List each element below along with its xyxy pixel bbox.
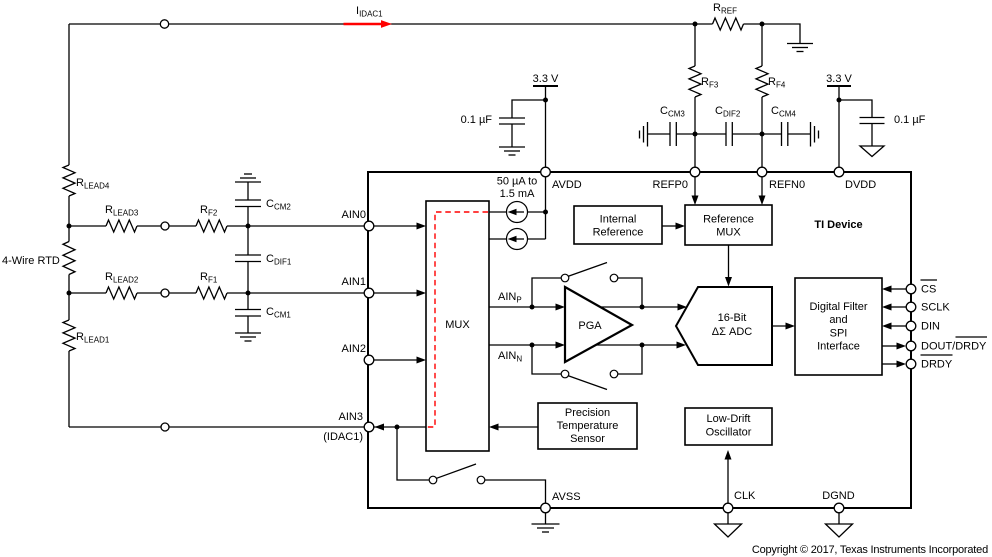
node: junction dot DVDD bypass tap [837,98,842,103]
via circle AIN0 row [161,222,169,230]
block Precision Temperature Sensor [538,403,637,449]
wire: CDIF1 to AIN1 node [247,262,249,294]
wire: AIN3/IDAC1 return row [69,426,369,428]
node: junction dot REFN0 cap row [760,132,765,137]
svg-text:Internal: Internal [600,214,637,226]
pin REFN0 [757,167,767,177]
wire: CCM1 to ground [247,316,249,333]
wire+arrow AIN1 into MUX [369,290,426,297]
wire: ground to CCM2 [247,182,249,200]
wire: AVDD tap to bypass cap [512,100,546,118]
label Low-Drift Oscillator [706,413,752,439]
svg-text:Sensor: Sensor [570,433,605,445]
pin AIN1 [364,288,374,298]
node: junction dot upper output [640,305,645,310]
wire+arrow DOUT/DRDY out of Digital Filter [882,343,906,350]
svg-text:SPI: SPI [830,328,848,340]
wire+arrow PGA lower output to ADC [596,342,686,349]
svg-text:Temperature: Temperature [557,420,619,432]
wire: AIN1 row left segment [69,292,106,294]
svg-text:Digital Filter: Digital Filter [809,301,867,313]
label 16-Bit ADC [712,312,752,338]
wire: RLEAD4 to AIN0 node [68,196,70,242]
label Reference MUX [703,214,754,239]
svg-text:0.1 µF: 0.1 µF [894,114,926,126]
node: junction dot left AIN0 [67,224,72,229]
resistor RF1 [196,287,227,299]
wire+arrow CLK to Oscillator [725,450,732,508]
svg-text:DVDD: DVDD [845,179,876,191]
wire: AIN3 tap down to AVSS switch [397,427,429,480]
ground triangle below DGND [826,524,853,537]
wire+arrow MUX out to AIN3 pin [374,424,426,431]
label AIN3 (IDAC1) [323,411,363,443]
label Precision Temperature Sensor [557,407,619,445]
resistor RLEAD3 [106,220,137,232]
svg-text:MUX: MUX [445,319,470,331]
capacitor CDIF2 [726,122,732,146]
switch AVSS internal [429,464,485,484]
svg-text:DGND: DGND [822,490,854,502]
wire: AVSS pin to ground [545,513,547,524]
svg-text:ΔΣ ADC: ΔΣ ADC [712,326,752,338]
svg-text:Interface: Interface [817,341,860,353]
wire: AIN1 row middle segment [137,292,196,294]
ground below AVDD cap [499,147,525,155]
switch upper bypass [561,263,618,282]
wire: MUX to current source 1 [489,211,507,213]
node: junction dot lower output [640,343,645,348]
wire+arrow Reference MUX to ADC [725,245,732,287]
svg-text:AIN1: AIN1 [342,276,366,288]
wire: RLEAD1 down to AIN3 row [68,351,70,427]
switch lower bypass [561,370,618,389]
supply 3.3V DVDD [827,86,851,172]
wire+arrow AINN MUX to PGA [489,342,565,349]
svg-text:50 µA to: 50 µA to [497,176,538,188]
block Internal Reference [574,206,662,244]
svg-text:MUX: MUX [716,227,741,239]
svg-text:AIN0: AIN0 [342,209,366,221]
node: junction dot AINN bypass [530,343,535,348]
label DRDY with overline [921,355,953,371]
pin DGND [834,503,844,513]
wire: AIN1 node to CCM1 [247,293,249,310]
via circle AIN3 row [161,423,169,431]
wire: top IDAC1 loop from left column to RREF [69,23,713,25]
wire+arrow REFN0 into Reference MUX [759,172,766,205]
wire: AIN0 row right segment to pin [227,225,369,227]
svg-text:TI Device: TI Device [814,219,862,231]
wire+arrow AIN0 into MUX [369,223,426,230]
op-amp PGA [565,287,632,362]
ground at RREF right [787,44,813,52]
ground above CCM2 [235,174,261,182]
svg-text:AIN3: AIN3 [339,411,363,423]
svg-text:REFN0: REFN0 [769,179,805,191]
current source IDAC1 [507,202,528,223]
ground below AVSS [532,524,560,532]
wire: DGND pin to chassis ground [838,513,840,524]
wire: RF4 bottom to REFN0 pin [761,97,763,172]
wire: CCM2 to AIN0 node [247,207,249,227]
node: junction dot CCM1/AIN1 [246,291,251,296]
via circle AIN1 row [161,289,169,297]
pin DIN [906,321,916,331]
ground sideways right of CCM4 [811,122,819,147]
wire: left column vertical from top wire to RLEAD4 [68,24,70,165]
supply 3.3V AVDD [533,86,558,172]
svg-text:Reference: Reference [593,227,644,239]
wire+arrow Internal Reference to Reference MUX [662,223,685,230]
capacitor CCM3 [670,122,676,146]
wire: switch to AVSS pin [485,480,546,508]
resistor RREF [713,18,744,30]
svg-text:DRDY: DRDY [921,359,953,371]
capacitor CCM4 [782,122,788,146]
wire+arrow DIN into Digital Filter [882,323,906,330]
wire: current source 1 to AVDD rail [528,211,546,213]
node: junction dot CCM2/AIN0 [246,224,251,229]
node: junction dot AVDD bypass tap [543,98,548,103]
svg-text:3.3 V: 3.3 V [826,73,852,85]
label 50uA to 1.5mA [497,176,538,201]
wire: RREF right node down to RF4 [761,24,763,66]
capacitor CCM2 [235,200,261,207]
resistor RF4 [756,66,768,97]
svg-text:SCLK: SCLK [921,302,950,314]
node: junction dot RREF left [693,22,698,27]
resistor RF3 [689,66,701,97]
capacitor CDIF1 [235,255,261,262]
resistor RLEAD2 [106,287,137,299]
wire: CCM4 to sideways ground [788,133,811,135]
wire+arrow DRDY out of Digital Filter [882,361,906,368]
wire: AVDD cap to ground [511,124,513,147]
red dashed IDAC1 route through MUX [427,212,489,427]
svg-text:4-Wire RTD: 4-Wire RTD [2,255,60,267]
svg-text:(IDAC1): (IDAC1) [323,431,363,443]
wire+arrow Temperature Sensor to MUX [489,424,538,431]
resistor RLEAD4 [63,165,75,196]
svg-text:Copyright © 2017, Texas Instru: Copyright © 2017, Texas Instruments Inco… [752,544,988,556]
label Digital Filter and SPI Interface [809,301,867,353]
wire: DVDD tap to bypass cap [839,100,872,118]
pin AVDD [541,167,551,177]
resistor RF2 [196,220,227,232]
svg-text:3.3 V: 3.3 V [533,73,559,85]
node: junction dot RREF right [760,22,765,27]
pin DVDD [834,167,844,177]
wire: CLK pin to chassis ground [727,513,729,524]
MUX block [426,201,489,451]
node: junction dot AINP bypass [530,305,535,310]
wire: AIN0 node to CDIF1 [247,226,249,255]
ground sideways left of CCM3 [640,122,648,147]
svg-text:Low-Drift: Low-Drift [706,413,750,425]
wire+arrow CS into Digital Filter [882,286,906,293]
label DOUT/DRDY with overline [921,337,987,353]
resistor RTD element [63,242,75,275]
wire+arrow AIN2 into MUX [369,357,426,364]
wire: upper PGA bypass path [532,278,642,307]
pin REFP0 [690,167,700,177]
wire+arrow SCLK into Digital Filter [882,304,906,311]
svg-text:DOUT/DRDY: DOUT/DRDY [921,341,987,353]
red current arrow IDAC1 [344,20,393,28]
wire+arrow PGA upper output to ADC [600,304,687,311]
current source IDAC2 [507,229,528,250]
svg-text:DIN: DIN [921,321,940,333]
wire: RTD to AIN1 node [68,275,70,321]
IC outline TI device [368,172,911,508]
pin CS [906,284,916,294]
block 16-Bit Delta-Sigma ADC [676,287,772,365]
capacitor 0.1uF DVDD [860,118,885,124]
wire: lower PGA bypass path [532,345,642,374]
wire+arrow REFP0 into Reference MUX [692,172,699,205]
svg-text:AVDD: AVDD [552,179,582,191]
wire: CDIF2 to CCM4 through REFN0 node [732,133,781,135]
capacitor CCM1 [235,310,261,317]
pin AVSS [541,503,551,513]
ground below CCM1 [235,333,261,341]
wire: CCM3 to CDIF2 through REFP0 node [676,133,726,135]
node: junction dot REFP0 cap row [693,132,698,137]
wire: DVDD cap to chassis ground [871,124,873,147]
pin AIN0 [364,221,374,231]
resistor RLEAD1 [63,320,75,351]
wire: ground to CCM3 [648,133,671,135]
block Digital Filter and SPI Interface [795,278,882,375]
pin CLK [723,503,733,513]
ground triangle below CLK [715,524,742,537]
wire: MUX to current source 2 [489,238,507,240]
pin DRDY [906,359,916,369]
pin DOUT/DRDY [906,341,916,351]
capacitor 0.1uF AVDD [499,118,525,124]
label Internal Reference [593,214,644,239]
wire: AIN1 row right segment to pin [227,292,369,294]
node: junction dot left AIN1 [67,291,72,296]
svg-text:AIN2: AIN2 [342,343,366,355]
pin AIN3 IDAC1 [364,422,374,432]
ground triangle below DVDD cap [860,146,884,157]
svg-text:0.1 µF: 0.1 µF [461,114,493,126]
pin AIN2 [364,355,374,365]
svg-text:CS: CS [921,284,936,296]
node: junction dot AVDD rail [543,210,548,215]
svg-text:Reference: Reference [703,214,754,226]
svg-text:Precision: Precision [565,407,610,419]
wire: AIN0 row middle segment [137,225,196,227]
svg-text:and: and [829,314,847,326]
svg-text:AVSS: AVSS [552,491,581,503]
svg-text:16-Bit: 16-Bit [718,312,747,324]
node: junction dot AIN3 switch tap [395,425,400,430]
wire: RREF right to ground stub [744,24,801,44]
block Low-Drift Oscillator [685,408,772,445]
label CS with overline [921,280,938,296]
wire: RREF left node down to RF3 [694,24,696,66]
wire+arrow ADC to Digital Filter [772,323,795,330]
wire: AVDD pin down to current sources [545,172,547,239]
svg-text:PGA: PGA [578,320,602,332]
pin SCLK [906,302,916,312]
svg-text:Oscillator: Oscillator [706,427,752,439]
wire: RF3 bottom to REFP0 pin [694,97,696,172]
via circle on top wire [160,20,168,28]
block Reference MUX [685,205,772,245]
wire: AIN0 row left segment [69,225,106,227]
wire+arrow AINP MUX to PGA [489,304,565,311]
svg-text:REFP0: REFP0 [653,179,688,191]
svg-text:1.5 mA: 1.5 mA [500,188,536,200]
svg-text:CLK: CLK [734,490,756,502]
wire: current source 2 to AVDD rail [528,238,546,240]
